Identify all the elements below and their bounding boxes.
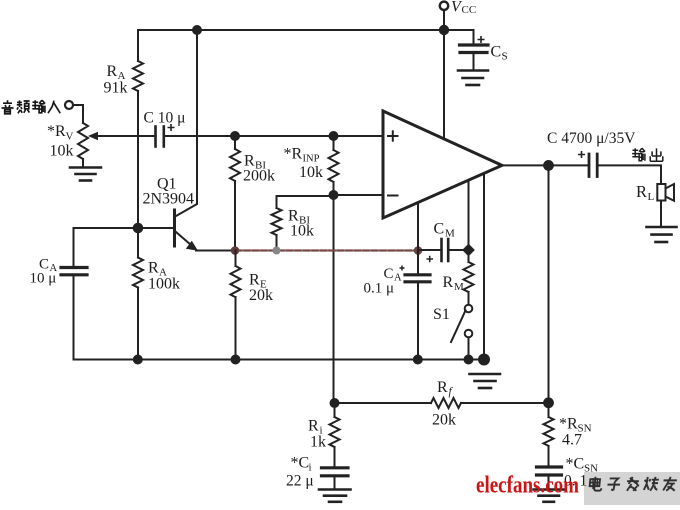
wire CS to ground xyxy=(473,54,475,70)
value label C 10u xyxy=(144,110,186,127)
svg-text:C: C xyxy=(434,221,445,238)
wire input terminal to potentiometer xyxy=(73,105,83,123)
plus marks CA 0.1u xyxy=(400,256,434,271)
junction RE on bottom rail xyxy=(232,356,240,364)
svg-text:10k: 10k xyxy=(50,143,74,160)
svg-text:200k: 200k xyxy=(243,168,275,185)
label CA 10u xyxy=(30,257,58,287)
potentiometer RV 10k body xyxy=(78,123,88,159)
svg-text:*R: *R xyxy=(559,416,578,433)
resistor RBI 200k xyxy=(230,149,240,181)
wire inverting node down to feedback node xyxy=(333,195,335,403)
svg-text:R: R xyxy=(636,182,647,201)
wire output cap to speaker xyxy=(598,165,662,184)
wire noninverting input line xyxy=(164,135,383,137)
svg-text:R: R xyxy=(148,260,159,277)
label output (Chinese) xyxy=(632,148,663,161)
resistor RINP 10k xyxy=(329,150,339,182)
wire op-amp output xyxy=(502,164,589,166)
svg-text:0.1 μ: 0.1 μ xyxy=(364,281,395,297)
resistor RBI 10k xyxy=(272,208,282,235)
wire speaker to ground xyxy=(660,201,662,227)
plus mark CS xyxy=(478,36,485,43)
label RA 91k xyxy=(104,63,128,97)
wire CSN to ground xyxy=(548,476,550,489)
junction RBI2 bottom on emitter bus xyxy=(273,247,281,255)
wire VCC to op-amp top edge xyxy=(443,30,445,139)
wire CA2 node to capacitor CM xyxy=(418,249,441,251)
junction emitter bus to CA2 node xyxy=(414,246,423,255)
plus mark output cap xyxy=(578,151,585,158)
junction RINP top on + line xyxy=(330,132,338,140)
junction base node xyxy=(134,224,143,233)
ground below CS xyxy=(458,71,488,86)
watermark grey box xyxy=(584,472,680,505)
svg-text:R: R xyxy=(249,272,260,289)
junction CM-RM node xyxy=(462,244,475,257)
wire wiper to coupling capacitor C xyxy=(97,135,155,137)
wire VCC terminal to top rail xyxy=(443,10,445,30)
svg-text:*R: *R xyxy=(284,146,303,163)
label RV 10k xyxy=(47,123,74,160)
wire Ri to Ci xyxy=(334,447,336,467)
svg-text:V: V xyxy=(66,131,74,143)
capacitor C output plates xyxy=(589,154,597,177)
capacitor CA 10u plates xyxy=(61,268,87,275)
resistor Rf 20k xyxy=(431,398,461,408)
svg-text:2N3904: 2N3904 xyxy=(143,191,195,208)
wire Q1 base xyxy=(138,227,173,229)
label Ri 1k xyxy=(308,418,326,451)
label CA 0.1u xyxy=(364,266,403,297)
value label CS xyxy=(491,44,508,63)
svg-text:10 μ: 10 μ xyxy=(30,271,57,287)
junction snubber node xyxy=(544,398,553,407)
wire Ci to ground xyxy=(334,477,336,489)
svg-text:C 4700 μ/35V: C 4700 μ/35V xyxy=(547,130,636,147)
label RL xyxy=(636,182,655,203)
wire CA2 bottom to bottom rail xyxy=(417,283,419,360)
junction feedback node left xyxy=(331,399,339,407)
speaker RL xyxy=(657,184,674,201)
resistor RA 100k xyxy=(133,258,143,288)
plus mark C xyxy=(168,124,175,131)
junction RBI1 top on + line xyxy=(231,132,239,140)
capacitor Ci 22u plates xyxy=(322,468,349,476)
wire RE top lead xyxy=(235,251,237,267)
wire RA2 top lead xyxy=(137,228,139,258)
svg-text:M: M xyxy=(454,281,464,293)
svg-text:22 μ: 22 μ xyxy=(286,473,314,490)
label Rf 20k xyxy=(432,379,456,429)
junction RE top on emitter bus xyxy=(231,246,240,255)
svg-text:91k: 91k xyxy=(104,80,128,97)
svg-text:L: L xyxy=(648,191,655,203)
wire emitter bus (marked line) xyxy=(235,250,418,252)
wire RA1 top lead xyxy=(137,30,139,61)
wire RSN to CSN xyxy=(548,446,550,467)
junction S1 on bottom rail xyxy=(465,356,473,364)
label Q1 2N3904 xyxy=(143,176,195,208)
svg-text:20k: 20k xyxy=(432,412,456,429)
wire collector line from rail xyxy=(176,30,197,216)
wire top supply rail xyxy=(138,29,474,31)
label RM xyxy=(443,274,465,293)
label audio input (Chinese) xyxy=(2,100,61,114)
capacitor CS plates xyxy=(460,45,489,53)
svg-text:R: R xyxy=(443,274,454,291)
transistor Q1 emitter xyxy=(176,232,198,251)
wire op-amp pin to emitter bus node xyxy=(417,203,419,251)
capacitor CSN plates xyxy=(537,467,562,475)
label RBI 10k lower xyxy=(288,208,314,240)
svg-text:C 10 μ: C 10 μ xyxy=(144,110,186,127)
op-amp U1 triangle xyxy=(383,111,502,218)
resistor RA 91k xyxy=(133,61,143,91)
wire op-amp ground pin down xyxy=(483,174,485,360)
junction output node xyxy=(544,161,553,170)
watermark elecfans.com xyxy=(476,472,579,499)
potentiometer RV wiper arrow xyxy=(88,132,98,140)
junction ground node on bottom rail xyxy=(479,355,489,365)
svg-text:10k: 10k xyxy=(290,223,314,240)
value label CSN 0.1u xyxy=(564,473,599,490)
transistor Q1 bar xyxy=(173,210,176,246)
label CSN xyxy=(566,456,599,475)
switch S1 xyxy=(451,305,472,342)
wire emitter to node xyxy=(196,250,235,252)
label Ci 22u xyxy=(286,455,314,490)
ground below RV xyxy=(70,168,101,181)
svg-text:CC: CC xyxy=(462,4,477,16)
svg-text:C: C xyxy=(491,44,502,61)
svg-text:R: R xyxy=(308,418,319,435)
wire inverting node to RBI2 xyxy=(277,196,334,208)
label S1 xyxy=(433,306,450,323)
wire RSN top lead xyxy=(548,403,550,417)
node audio input terminal xyxy=(65,101,73,109)
wire RINP top lead xyxy=(333,136,335,150)
svg-text:R: R xyxy=(107,63,118,80)
label RINP 10k xyxy=(284,146,324,182)
label VCC xyxy=(451,0,476,16)
capacitor C 10u plates xyxy=(156,127,164,147)
resistor RE 20k xyxy=(231,266,241,297)
wire RM top lead xyxy=(468,250,470,262)
wire op-amp bypass pin down xyxy=(468,180,470,250)
svg-text:4.7: 4.7 xyxy=(562,432,582,449)
wire Rf to snubber node xyxy=(461,402,549,404)
junction VCC on top rail xyxy=(440,26,448,34)
svg-text:S1: S1 xyxy=(433,306,450,323)
label RSN 4.7 xyxy=(559,416,592,449)
svg-text:*C: *C xyxy=(291,455,310,472)
ground below RL xyxy=(647,227,677,242)
wire rail corner down to capacitor CS xyxy=(473,30,475,44)
svg-text:S: S xyxy=(502,51,508,63)
wire output node down to snubber node xyxy=(548,165,550,402)
svg-text:M: M xyxy=(445,228,455,240)
wire CA2 node to plates xyxy=(417,250,419,274)
wire bottom rail xyxy=(74,359,485,361)
resistor RSN 4.7 xyxy=(544,417,554,446)
svg-text:*R: *R xyxy=(47,123,66,140)
svg-text:elecfans.com: elecfans.com xyxy=(476,472,579,499)
svg-text:A: A xyxy=(394,273,402,284)
wire RV bottom to ground xyxy=(82,159,84,167)
resistor Ri 1k xyxy=(330,417,340,447)
op-amp plus input mark xyxy=(388,131,398,140)
svg-text:*C: *C xyxy=(566,456,585,473)
junction collector line on top rail xyxy=(193,26,201,34)
svg-text:10k: 10k xyxy=(299,164,323,181)
wire RE bottom lead xyxy=(235,297,237,360)
junction inverting node xyxy=(330,191,338,199)
wire CA1 bottom to bottom rail xyxy=(73,276,75,360)
wire S1 to bottom rail xyxy=(468,338,470,360)
wire feedback node to Rf xyxy=(335,402,432,404)
value label C 4700u/35V xyxy=(547,130,636,147)
wire inverting input to op-amp xyxy=(334,194,384,196)
node VCC terminal xyxy=(440,2,448,10)
ground below Ci xyxy=(319,490,351,502)
junction RA2 on bottom rail xyxy=(134,356,142,364)
svg-text:20k: 20k xyxy=(249,287,273,304)
wire base node to capacitor CA1 xyxy=(74,228,139,267)
junction CA2 on bottom rail xyxy=(414,356,422,364)
wire RA2 bottom lead xyxy=(137,288,139,360)
svg-text:INP: INP xyxy=(303,154,320,165)
resistor RM xyxy=(464,262,474,292)
wire RBI2 bottom lead xyxy=(276,235,278,251)
watermark Chinese characters xyxy=(589,477,677,491)
label RBI 200k xyxy=(243,153,275,185)
ground main below bottom rail xyxy=(470,374,501,388)
wire RBI1 top lead xyxy=(234,136,236,149)
capacitor CM plates xyxy=(442,239,449,261)
wire RBI1 bottom lead xyxy=(234,181,236,251)
svg-text:1k: 1k xyxy=(310,434,326,451)
ground below CSN xyxy=(534,490,565,502)
op-amp minus input mark xyxy=(388,195,398,197)
wire RM to switch S1 xyxy=(468,292,470,305)
label RE 20k xyxy=(249,272,273,305)
wire RA1 bottom lead to base node xyxy=(137,91,139,228)
label CM xyxy=(434,221,456,240)
svg-text:100k: 100k xyxy=(148,276,180,293)
svg-text:R: R xyxy=(437,379,448,396)
wire RINP bottom lead xyxy=(333,182,335,195)
wire CM to RM node xyxy=(449,249,469,251)
label RA 100k xyxy=(148,260,180,293)
wire Ri top lead xyxy=(334,403,336,417)
capacitor CA 0.1u plates xyxy=(405,275,430,282)
